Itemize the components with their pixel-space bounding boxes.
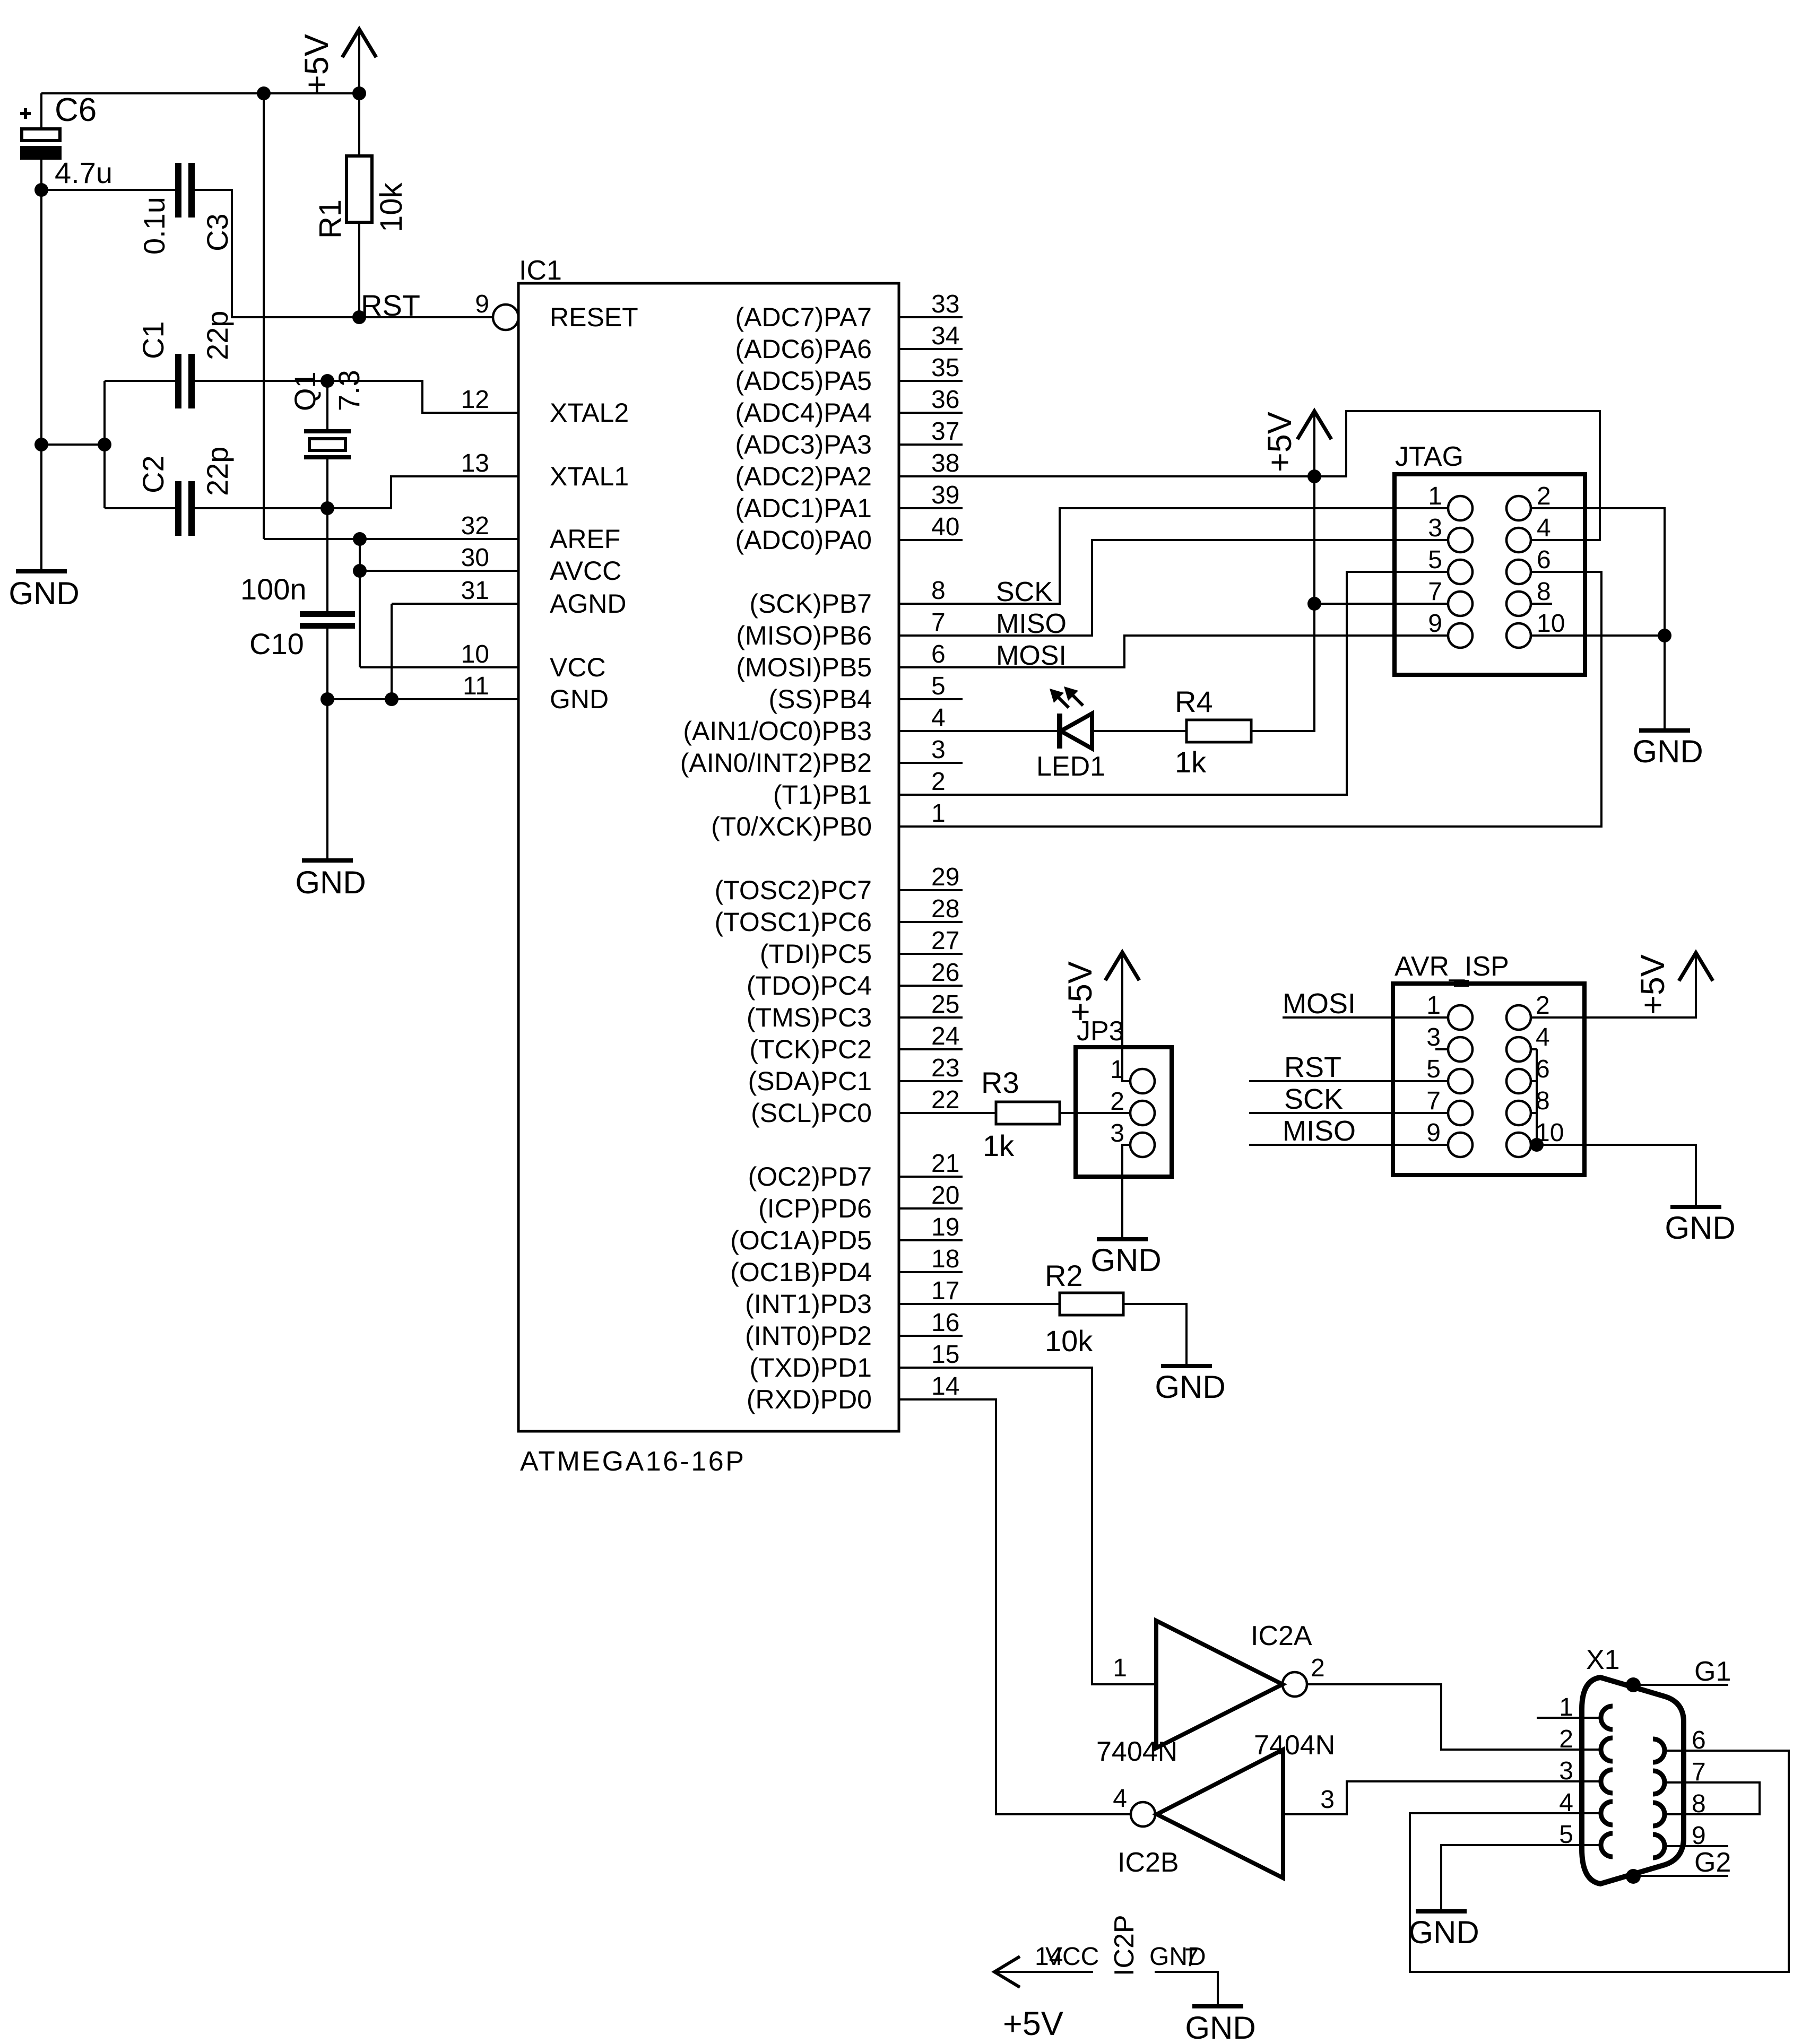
svg-text:(T1)PB1: (T1)PB1 bbox=[773, 780, 872, 810]
svg-text:1k: 1k bbox=[983, 1129, 1015, 1162]
svg-text:2: 2 bbox=[931, 768, 946, 796]
svg-text:1: 1 bbox=[1113, 1654, 1127, 1682]
svg-text:13: 13 bbox=[461, 449, 489, 477]
wire IC2A out to X1 pin2 bbox=[1307, 1684, 1601, 1750]
wire RST to AVR_ISP pin5 bbox=[1249, 1080, 1448, 1082]
wire PB1 to JTAG pin5 bbox=[899, 572, 1448, 795]
svg-text:39: 39 bbox=[931, 481, 959, 509]
svg-text:1: 1 bbox=[931, 799, 946, 828]
svg-text:R3: R3 bbox=[981, 1066, 1019, 1099]
ground GND symbol (R2) bbox=[1161, 1364, 1212, 1368]
svg-text:GND: GND bbox=[550, 684, 609, 714]
svg-text:25: 25 bbox=[931, 990, 959, 1019]
inverter IC2A triangle bbox=[1156, 1621, 1283, 1748]
capacitor C10 plates bbox=[300, 611, 355, 617]
svg-text:Q1: Q1 bbox=[288, 371, 322, 411]
junction dot R4 rail / JTAG pin7 bbox=[1307, 597, 1321, 611]
crystal Q1 top lead bbox=[326, 381, 328, 429]
svg-text:LED1: LED1 bbox=[1036, 751, 1105, 782]
IC IC1 body bbox=[518, 283, 899, 1431]
svg-text:23: 23 bbox=[931, 1054, 959, 1082]
wire X1 pin4-pin6 loop bbox=[1410, 1751, 1789, 1972]
svg-text:31: 31 bbox=[461, 577, 489, 605]
svg-text:GND: GND bbox=[1665, 1210, 1735, 1246]
svg-text:30: 30 bbox=[461, 544, 489, 572]
svg-text:R1: R1 bbox=[313, 199, 348, 239]
svg-text:40: 40 bbox=[931, 513, 959, 541]
wire JTAG pin10 bbox=[1531, 634, 1665, 637]
svg-text:JTAG: JTAG bbox=[1395, 441, 1463, 472]
inverter IC2B input bubble bbox=[1131, 1802, 1155, 1826]
junction dot link / C1C2 left bbox=[98, 438, 111, 451]
wire PC0 to R3 bbox=[899, 1112, 996, 1114]
svg-text:10: 10 bbox=[461, 640, 489, 668]
svg-text:(MOSI)PB5: (MOSI)PB5 bbox=[736, 653, 872, 682]
wire X1 pin9 stub bbox=[1665, 1845, 1728, 1847]
svg-text:4.7u: 4.7u bbox=[55, 156, 112, 189]
svg-text:7: 7 bbox=[931, 608, 946, 637]
ground GND symbol (left rail) bbox=[16, 569, 67, 573]
wire R4 to +5V rail bbox=[1251, 476, 1314, 731]
capacitor C2 plates bbox=[175, 481, 181, 536]
wire MISO net bbox=[899, 540, 1448, 636]
svg-text:(TOSC1)PC6: (TOSC1)PC6 bbox=[715, 907, 872, 937]
svg-text:C1: C1 bbox=[136, 321, 170, 359]
connector AVR_ISP pads bbox=[1448, 1005, 1472, 1030]
svg-text:5: 5 bbox=[931, 672, 946, 700]
svg-text:8: 8 bbox=[1537, 578, 1551, 606]
LED LED1 arrows bbox=[1058, 697, 1069, 708]
capacitor C6 bottom plate bbox=[20, 146, 62, 160]
capacitor C1 plates bbox=[175, 354, 181, 408]
wire PD3 to R2 bbox=[899, 1303, 1060, 1305]
svg-text:GND: GND bbox=[1155, 1369, 1225, 1405]
wire C2 right to crystal bottom bbox=[195, 507, 327, 509]
wire AVR_ISP pin10 to GND bbox=[1531, 1145, 1696, 1205]
svg-text:16: 16 bbox=[931, 1309, 959, 1337]
resistor R4 body bbox=[1186, 720, 1251, 742]
svg-text:6: 6 bbox=[1537, 546, 1551, 574]
svg-text:3: 3 bbox=[1428, 514, 1442, 542]
wire C3 left bbox=[41, 189, 175, 191]
svg-text:29: 29 bbox=[931, 863, 959, 891]
svg-text:MISO: MISO bbox=[1283, 1115, 1356, 1147]
junction dot C10 bottom / GND rail bbox=[321, 692, 334, 706]
svg-text:22p: 22p bbox=[201, 311, 234, 360]
svg-text:MOSI: MOSI bbox=[1283, 988, 1356, 1020]
svg-text:4: 4 bbox=[1113, 1785, 1127, 1813]
wire G1 bbox=[1633, 1684, 1728, 1686]
svg-text:22p: 22p bbox=[201, 447, 234, 496]
svg-text:32: 32 bbox=[461, 512, 489, 540]
wire LED1 to R4 bbox=[1092, 730, 1186, 732]
svg-text:(TMS)PC3: (TMS)PC3 bbox=[747, 1003, 872, 1032]
ground GND symbol (JTAG) bbox=[1639, 728, 1690, 733]
power +5V symbol (JP3) bbox=[1105, 952, 1139, 980]
capacitor C6 plus sign bbox=[20, 112, 31, 115]
svg-text:2: 2 bbox=[1536, 991, 1550, 1020]
svg-text:3: 3 bbox=[1426, 1023, 1441, 1051]
svg-text:R4: R4 bbox=[1175, 685, 1213, 718]
svg-text:GND: GND bbox=[1632, 734, 1703, 769]
svg-text:IC2P: IC2P bbox=[1109, 1915, 1140, 1976]
svg-text:RST: RST bbox=[1284, 1051, 1341, 1083]
svg-text:9: 9 bbox=[1428, 610, 1442, 638]
ground GND symbol (below C10) bbox=[302, 858, 353, 863]
svg-text:17: 17 bbox=[931, 1277, 959, 1305]
svg-text:+5V: +5V bbox=[298, 34, 335, 94]
svg-text:(SDA)PC1: (SDA)PC1 bbox=[748, 1066, 872, 1096]
svg-text:14: 14 bbox=[931, 1372, 959, 1401]
svg-text:R2: R2 bbox=[1045, 1259, 1083, 1292]
svg-text:(ADC0)PA0: (ADC0)PA0 bbox=[735, 525, 872, 555]
resistor R1 top lead bbox=[358, 93, 360, 156]
svg-text:8: 8 bbox=[1536, 1087, 1550, 1115]
inverter IC2A output bubble bbox=[1283, 1672, 1307, 1697]
junction dot AGND/GND rail bbox=[385, 692, 399, 706]
svg-text:(SCL)PC0: (SCL)PC0 bbox=[751, 1098, 872, 1128]
svg-text:G1: G1 bbox=[1694, 1656, 1731, 1687]
svg-text:33: 33 bbox=[931, 290, 959, 318]
connector AVR_ISP body bbox=[1393, 984, 1584, 1175]
svg-text:1: 1 bbox=[1110, 1056, 1124, 1084]
wire X1 pin1 stub bbox=[1537, 1717, 1601, 1719]
svg-text:RESET: RESET bbox=[550, 302, 638, 332]
svg-text:XTAL1: XTAL1 bbox=[550, 462, 629, 491]
svg-text:24: 24 bbox=[931, 1022, 959, 1050]
svg-text:GND: GND bbox=[1185, 2010, 1255, 2044]
wire AREF feed bbox=[264, 538, 518, 540]
svg-text:C3: C3 bbox=[201, 213, 234, 251]
junction dot AREF/AVCC tap bbox=[353, 532, 367, 546]
junction dot crystal bottom bbox=[321, 501, 334, 515]
power pin IC2P VCC arrow bbox=[994, 1956, 1020, 1987]
svg-text:20: 20 bbox=[931, 1181, 959, 1210]
svg-text:(TXD)PD1: (TXD)PD1 bbox=[749, 1353, 872, 1382]
svg-text:3: 3 bbox=[1320, 1786, 1335, 1814]
junction dot +5V rail / R1 top bbox=[352, 86, 366, 100]
wire AVR_ISP pins 4-6-8 tie bbox=[1536, 1049, 1538, 1145]
svg-text:100n: 100n bbox=[240, 572, 307, 606]
connector X1 pin arcs bbox=[1601, 1706, 1613, 1729]
wire link rail bbox=[41, 443, 105, 446]
ground GND symbol (AVR_ISP) bbox=[1670, 1205, 1721, 1209]
LED LED1 cathode bar bbox=[1057, 714, 1062, 749]
svg-text:1: 1 bbox=[1426, 991, 1441, 1020]
svg-text:1k: 1k bbox=[1175, 745, 1207, 779]
ground GND symbol (X1 pin5) bbox=[1416, 1909, 1467, 1913]
svg-text:7: 7 bbox=[1184, 1944, 1199, 1972]
svg-text:+5V: +5V bbox=[1261, 412, 1298, 472]
svg-text:GND: GND bbox=[1408, 1915, 1479, 1950]
connector X1 outline bbox=[1582, 1677, 1684, 1884]
svg-text:SCK: SCK bbox=[1284, 1083, 1343, 1115]
svg-text:SCK: SCK bbox=[996, 577, 1053, 607]
resistor R3 body bbox=[996, 1102, 1060, 1124]
wire JP3 pin3 to GND bbox=[1122, 1145, 1130, 1237]
wire RST to IC reset pin bbox=[359, 316, 493, 318]
svg-text:+5V: +5V bbox=[1003, 2005, 1063, 2042]
svg-text:2: 2 bbox=[1110, 1088, 1124, 1116]
wire left rail to GND bbox=[40, 190, 42, 569]
svg-text:27: 27 bbox=[931, 927, 959, 955]
wire PB3 to LED1 bbox=[899, 730, 1059, 732]
svg-text:0.1u: 0.1u bbox=[137, 197, 171, 255]
wire AGND down bbox=[391, 604, 393, 699]
svg-text:4: 4 bbox=[1536, 1023, 1550, 1051]
svg-text:MOSI: MOSI bbox=[996, 640, 1067, 671]
svg-text:1: 1 bbox=[1428, 482, 1442, 510]
svg-text:(OC1A)PD5: (OC1A)PD5 bbox=[730, 1225, 872, 1255]
power +5V symbol (top left) bbox=[342, 29, 376, 57]
inverter IC2B triangle bbox=[1157, 1750, 1283, 1878]
svg-text:AGND: AGND bbox=[550, 589, 626, 619]
resistor R1 body bbox=[347, 156, 372, 222]
svg-text:AREF: AREF bbox=[550, 524, 620, 554]
ground GND symbol (IC2P) bbox=[1192, 2004, 1243, 2008]
junction dot left rail / C1C2 link bbox=[34, 438, 48, 451]
wire C6 bottom lead bbox=[40, 160, 42, 190]
wire AVR_ISP pin3 stub bbox=[1435, 1048, 1448, 1050]
svg-text:37: 37 bbox=[931, 418, 959, 446]
svg-text:C6: C6 bbox=[55, 92, 97, 128]
crystal Q1 bottom lead bbox=[326, 459, 328, 508]
crystal Q1 body bbox=[309, 439, 345, 450]
svg-text:2: 2 bbox=[1537, 482, 1551, 510]
svg-text:XTAL2: XTAL2 bbox=[550, 398, 629, 428]
svg-text:IC1: IC1 bbox=[519, 255, 562, 286]
junction dot AVCC tap bbox=[353, 564, 367, 578]
wire MISO to AVR_ISP pin9 bbox=[1249, 1144, 1448, 1146]
svg-text:3: 3 bbox=[1559, 1757, 1573, 1785]
svg-text:C2: C2 bbox=[136, 455, 170, 493]
svg-text:5: 5 bbox=[1428, 546, 1442, 574]
svg-text:(AIN1/OC0)PB3: (AIN1/OC0)PB3 bbox=[683, 716, 872, 746]
node G1 dot bbox=[1626, 1677, 1641, 1692]
crystal Q1 top plate bbox=[304, 429, 351, 433]
svg-text:GND: GND bbox=[1090, 1242, 1161, 1278]
junction dot pin38/+5V bbox=[1307, 469, 1321, 483]
power +5V symbol (AVR_ISP) bbox=[1679, 953, 1713, 981]
svg-text:(OC2)PD7: (OC2)PD7 bbox=[748, 1162, 872, 1191]
wire MOSI to AVR_ISP pin1 bbox=[1283, 1016, 1448, 1019]
svg-text:5: 5 bbox=[1426, 1055, 1441, 1083]
svg-text:(AIN0/INT2)PB2: (AIN0/INT2)PB2 bbox=[680, 748, 872, 778]
svg-text:6: 6 bbox=[1536, 1055, 1550, 1083]
svg-text:IC2A: IC2A bbox=[1251, 1621, 1312, 1651]
wire JP3 pin1 to +5V bbox=[1122, 952, 1130, 1081]
svg-text:4: 4 bbox=[931, 704, 946, 732]
svg-text:(ADC5)PA5: (ADC5)PA5 bbox=[735, 366, 872, 396]
junction dot RST node bbox=[352, 310, 366, 324]
wire C1/C2 left vertical bbox=[103, 381, 106, 508]
svg-text:(ADC4)PA4: (ADC4)PA4 bbox=[735, 398, 872, 428]
svg-text:X1: X1 bbox=[1586, 1645, 1620, 1675]
svg-text:7404N: 7404N bbox=[1096, 1736, 1177, 1767]
crystal Q1 bottom plate bbox=[304, 455, 351, 459]
svg-text:2: 2 bbox=[1559, 1725, 1573, 1753]
svg-text:7.3: 7.3 bbox=[332, 370, 366, 411]
ground GND symbol (JP3) bbox=[1097, 1237, 1148, 1241]
wire C6 top lead bbox=[40, 93, 42, 129]
svg-text:GND: GND bbox=[8, 576, 79, 611]
wire X1 pin7-pin8 loop bbox=[1665, 1782, 1760, 1814]
svg-text:10: 10 bbox=[1537, 610, 1565, 638]
wire AREF-AVCC link bbox=[359, 539, 361, 571]
svg-text:ATMEGA16-16P: ATMEGA16-16P bbox=[520, 1446, 746, 1477]
svg-text:11: 11 bbox=[463, 672, 489, 700]
wire SCK to AVR_ISP pin7 bbox=[1249, 1112, 1448, 1114]
svg-text:(ADC1)PA1: (ADC1)PA1 bbox=[735, 493, 872, 523]
svg-text:21: 21 bbox=[931, 1150, 959, 1178]
svg-text:(TOSC2)PC7: (TOSC2)PC7 bbox=[715, 875, 872, 905]
svg-text:C10: C10 bbox=[249, 627, 304, 660]
svg-text:(SS)PB4: (SS)PB4 bbox=[768, 684, 872, 714]
svg-text:9: 9 bbox=[1426, 1119, 1441, 1147]
wire C2 left bbox=[105, 507, 175, 509]
svg-text:38: 38 bbox=[931, 449, 959, 477]
svg-text:MISO: MISO bbox=[996, 608, 1067, 639]
svg-text:AVCC: AVCC bbox=[550, 556, 621, 586]
junction dot node C6/C3 bbox=[34, 183, 48, 197]
junction dot AVR_ISP pin10 tie bbox=[1530, 1138, 1544, 1152]
svg-text:(ADC7)PA7: (ADC7)PA7 bbox=[735, 302, 872, 332]
capacitor C3 plates bbox=[175, 163, 181, 218]
svg-text:(TDI)PC5: (TDI)PC5 bbox=[760, 939, 872, 969]
capacitor C10 top lead bbox=[326, 508, 328, 611]
svg-text:(SCK)PB7: (SCK)PB7 bbox=[749, 589, 872, 619]
svg-text:12: 12 bbox=[461, 386, 489, 414]
svg-text:VCC: VCC bbox=[550, 653, 606, 682]
svg-text:22: 22 bbox=[931, 1086, 959, 1114]
junction dot crystal top bbox=[321, 374, 334, 388]
connector JTAG body bbox=[1394, 474, 1585, 675]
wire AGND pin bbox=[392, 603, 518, 605]
wire IC2B out to X1 pin3 bbox=[1283, 1781, 1601, 1814]
svg-text:(INT1)PD3: (INT1)PD3 bbox=[745, 1289, 872, 1319]
wire TXD to IC2A input bbox=[899, 1368, 1156, 1684]
svg-text:6: 6 bbox=[931, 640, 946, 668]
svg-text:2: 2 bbox=[1311, 1654, 1325, 1682]
IC1 unconnected pin stubs bbox=[899, 316, 963, 318]
capacitor C10 bottom lead bbox=[326, 629, 328, 699]
svg-text:(ADC3)PA3: (ADC3)PA3 bbox=[735, 430, 872, 459]
svg-text:+5V: +5V bbox=[1062, 961, 1099, 1022]
wire R2 to GND bbox=[1123, 1304, 1186, 1364]
wire IC2P GND pin bbox=[1155, 1972, 1218, 2004]
wire GND stem (below C10 rail) bbox=[326, 699, 328, 858]
capacitor C6 top plate bbox=[22, 129, 60, 141]
svg-text:34: 34 bbox=[931, 322, 959, 350]
wire pin38 to +5V rail bbox=[899, 475, 1314, 477]
resistor R2 body bbox=[1060, 1293, 1123, 1315]
resistor R1 bottom lead bbox=[358, 222, 360, 317]
wire X1 pin5 to GND bbox=[1441, 1845, 1601, 1909]
svg-text:18: 18 bbox=[931, 1245, 959, 1273]
wire C1 right to XTAL2 jog bbox=[195, 381, 518, 413]
svg-text:7: 7 bbox=[1426, 1087, 1441, 1115]
svg-text:28: 28 bbox=[931, 895, 959, 923]
connector AVR_ISP top tab bbox=[1454, 980, 1469, 987]
wire SCK net bbox=[899, 508, 1448, 604]
wire JTAG pin2 to GND bbox=[1531, 508, 1665, 636]
svg-text:36: 36 bbox=[931, 386, 959, 414]
svg-text:IC2B: IC2B bbox=[1118, 1847, 1179, 1878]
svg-text:(RXD)PD0: (RXD)PD0 bbox=[747, 1385, 872, 1414]
svg-text:(ADC6)PA6: (ADC6)PA6 bbox=[735, 334, 872, 364]
LED LED1 triangle bbox=[1061, 714, 1092, 749]
svg-text:(ICP)PD6: (ICP)PD6 bbox=[758, 1194, 872, 1223]
wire C3 right to RST net bbox=[195, 190, 359, 317]
pin 9 inversion bubble (RESET) bbox=[493, 305, 518, 330]
svg-text:(T0/XCK)PB0: (T0/XCK)PB0 bbox=[711, 812, 872, 841]
svg-text:35: 35 bbox=[931, 354, 959, 382]
svg-text:15: 15 bbox=[931, 1341, 959, 1369]
wire +5V top rail bbox=[41, 92, 359, 94]
svg-text:(ADC2)PA2: (ADC2)PA2 bbox=[735, 462, 872, 491]
wire AVCC-VCC link bbox=[359, 571, 361, 667]
svg-text:3: 3 bbox=[931, 736, 946, 764]
junction dot JTAG pin10/GND bbox=[1658, 629, 1671, 642]
wire JTAG GND stem bbox=[1664, 636, 1666, 728]
wire RXD to IC2B input bbox=[899, 1399, 1131, 1814]
svg-text:(MISO)PB6: (MISO)PB6 bbox=[736, 621, 872, 650]
svg-text:(TDO)PC4: (TDO)PC4 bbox=[747, 971, 872, 1001]
node G2 dot bbox=[1626, 1869, 1641, 1884]
svg-text:(INT0)PD2: (INT0)PD2 bbox=[745, 1321, 872, 1351]
svg-text:3: 3 bbox=[1110, 1119, 1124, 1147]
wire VCC feed bbox=[360, 666, 518, 668]
wire JTAG pin8 stub bbox=[1531, 603, 1552, 605]
wire AVR_ISP pin2 to +5V bbox=[1531, 953, 1696, 1017]
svg-text:AVR_ISP: AVR_ISP bbox=[1394, 951, 1509, 982]
svg-text:G2: G2 bbox=[1694, 1847, 1731, 1878]
svg-text:26: 26 bbox=[931, 959, 959, 987]
wire GND rail to IC pin 11 bbox=[327, 698, 518, 700]
svg-text:19: 19 bbox=[931, 1213, 959, 1241]
wire MOSI net bbox=[899, 636, 1448, 667]
power +5V symbol (JTAG area) bbox=[1297, 411, 1331, 439]
junction dot +5V rail / AREF rail bbox=[257, 86, 271, 100]
svg-text:10k: 10k bbox=[1045, 1324, 1093, 1358]
connector JTAG pin pads bbox=[1448, 496, 1472, 520]
svg-text:10k: 10k bbox=[374, 182, 409, 232]
svg-text:7: 7 bbox=[1428, 578, 1442, 606]
svg-text:9: 9 bbox=[475, 290, 489, 318]
svg-text:8: 8 bbox=[931, 577, 946, 605]
svg-text:4: 4 bbox=[1537, 514, 1551, 542]
wire JTAG pin7 to +5V bbox=[1314, 603, 1448, 605]
svg-text:+5V: +5V bbox=[1634, 954, 1671, 1015]
wire JTAG pin4 to +5V loop bbox=[1314, 411, 1600, 540]
wire PB0 to JTAG pin6 bbox=[899, 572, 1601, 827]
svg-text:(OC1B)PD4: (OC1B)PD4 bbox=[730, 1257, 872, 1287]
wire G2 bbox=[1633, 1875, 1728, 1877]
wire R3 to JP3 pin2 bbox=[1060, 1112, 1130, 1114]
connector JP3 body bbox=[1076, 1047, 1172, 1177]
wire C1 left bbox=[105, 380, 175, 382]
connector JP3 pads bbox=[1130, 1069, 1155, 1093]
svg-text:VCC: VCC bbox=[1045, 1943, 1099, 1971]
svg-text:GND: GND bbox=[295, 865, 366, 900]
svg-text:7404N: 7404N bbox=[1254, 1730, 1335, 1761]
wire +5V down rail bbox=[263, 93, 265, 539]
wire AVCC feed bbox=[360, 570, 518, 572]
svg-text:(TCK)PC2: (TCK)PC2 bbox=[749, 1034, 872, 1064]
wire crystal bottom to XTAL1 jog bbox=[327, 476, 518, 508]
